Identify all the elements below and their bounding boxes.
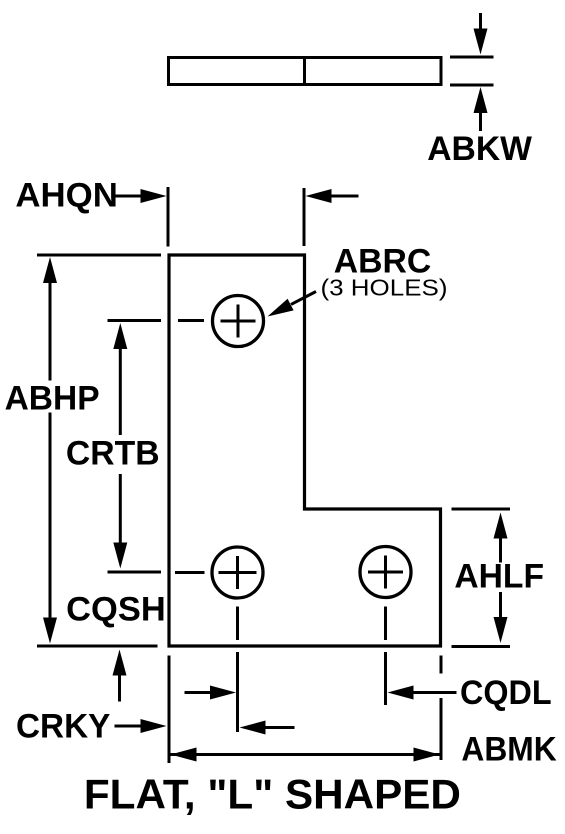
svg-text:FLAT, "L" SHAPED: FLAT, "L" SHAPED bbox=[84, 771, 461, 818]
svg-text:CRTB: CRTB bbox=[66, 435, 160, 473]
svg-text:ABKW: ABKW bbox=[427, 130, 533, 168]
svg-text:CQSH: CQSH bbox=[66, 591, 166, 629]
svg-text:AHQN: AHQN bbox=[15, 177, 118, 215]
svg-text:(3 HOLES): (3 HOLES) bbox=[321, 275, 448, 301]
svg-text:CRKY: CRKY bbox=[16, 708, 111, 746]
svg-text:AHLF: AHLF bbox=[454, 558, 544, 596]
svg-text:ABMK: ABMK bbox=[461, 731, 557, 769]
svg-text:CQDL: CQDL bbox=[460, 674, 552, 712]
svg-text:ABHP: ABHP bbox=[5, 380, 100, 418]
